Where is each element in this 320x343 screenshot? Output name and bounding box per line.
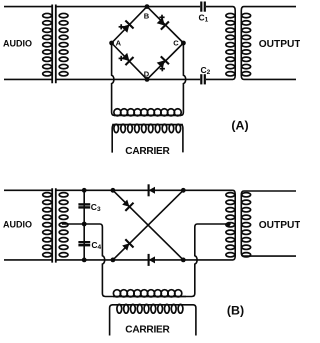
output transformer T2 (circuit A) <box>206 7 296 80</box>
carrier transformer T3 secondary winding (circuit A) <box>112 124 183 152</box>
svg-text:A: A <box>116 39 122 48</box>
svg-text:AUDIO: AUDIO <box>3 220 32 230</box>
wire: bridge arm A-D <box>112 43 147 79</box>
wire: bottom rail circuit B <box>56 259 233 261</box>
diode CR6 (diagonal TL-BR) <box>121 198 134 211</box>
diode CR4 (arm D-C) <box>156 56 169 69</box>
junction dot: C3 top <box>82 188 87 193</box>
wire: output center tap down to carrier primary (right) <box>186 224 227 297</box>
wire: bridge arm D-C <box>147 43 183 79</box>
wire: top rail circuit A (audio to C1 through node B) <box>56 6 200 8</box>
svg-text:OUTPUT: OUTPUT <box>259 220 300 231</box>
node A <box>109 41 114 46</box>
carrier transformer T3 primary winding (circuit A) <box>114 109 181 116</box>
capacitor C4 <box>78 242 90 245</box>
output transformer T5 (circuit B) <box>226 190 296 260</box>
svg-text:(B): (B) <box>227 304 244 318</box>
wire: top rail circuit B <box>56 189 233 191</box>
wire: audio center tap down to carrier primary (left) <box>62 224 113 297</box>
wire: lattice diagonal TL-BR <box>113 190 183 260</box>
junction dot: lattice bottom-left <box>111 258 116 263</box>
diode CR2 (arm B-C) <box>156 16 169 29</box>
svg-text:(A): (A) <box>231 119 248 133</box>
diode CR5 (top rail) <box>149 184 155 196</box>
node D <box>145 77 150 82</box>
node B <box>145 4 150 9</box>
polarity + (CR3) <box>119 57 124 59</box>
svg-text:CARRIER: CARRIER <box>125 146 170 157</box>
polarity + (CR4) <box>160 68 165 70</box>
diode CR7 (diagonal BL-TR) <box>121 239 134 252</box>
carrier transformer T6 primary winding (circuit B) <box>113 290 186 297</box>
junction dot: output center tap at winding <box>227 222 231 226</box>
capacitor C1 <box>201 2 205 12</box>
node C <box>181 41 186 46</box>
wire: lattice diagonal BL-TR <box>113 190 183 260</box>
junction dot: lattice top-right <box>181 188 186 193</box>
polarity + (CR1) <box>119 26 124 28</box>
svg-text:CARRIER: CARRIER <box>125 325 170 336</box>
svg-text:D: D <box>144 69 150 78</box>
wire: bridge arm B-C <box>147 7 183 43</box>
audio transformer T4 (circuit B) <box>4 188 68 262</box>
wire: node A down to carrier winding <box>112 43 115 115</box>
wire: bridge arm A-B <box>112 7 147 43</box>
junction dot: lattice bottom-right <box>181 258 186 263</box>
diode CR8 (bottom rail) <box>149 254 155 266</box>
audio transformer T1 (circuit A) <box>4 5 68 84</box>
svg-text:C: C <box>173 39 179 48</box>
junction dot: audio center tap <box>82 222 87 227</box>
svg-text:OUTPUT: OUTPUT <box>259 39 300 50</box>
wire: bottom rail circuit A (audio to C2 through node D) <box>56 78 200 80</box>
capacitor branch wire (C3/C4) <box>83 190 85 260</box>
wire: node C down to carrier winding <box>180 43 186 115</box>
svg-text:AUDIO: AUDIO <box>3 39 32 49</box>
diode CR3 (arm A-D) <box>120 52 133 65</box>
capacitor C3 <box>78 204 90 207</box>
carrier transformer T6 secondary winding (circuit B) <box>110 304 196 335</box>
capacitor C2 <box>201 74 205 84</box>
polarity + (CR2) <box>159 16 164 18</box>
junction dot: lattice top-left <box>111 188 116 193</box>
svg-text:B: B <box>144 12 150 21</box>
junction dot: C4 bottom <box>82 258 87 263</box>
diode CR1 (arm A-B) <box>120 21 133 34</box>
